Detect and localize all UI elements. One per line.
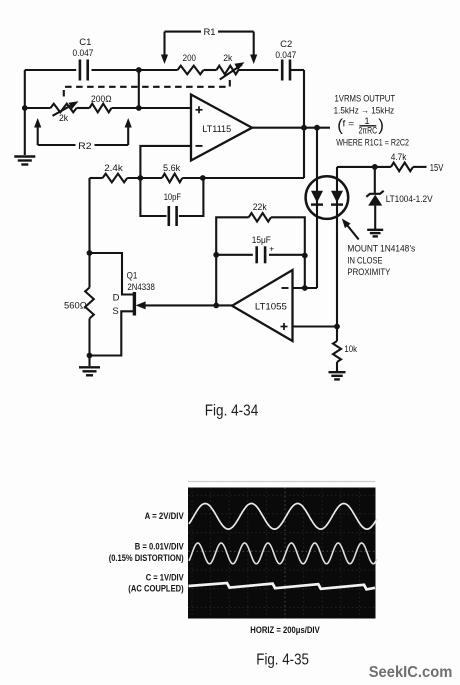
svg-text:(AC COUPLED): (AC COUPLED) <box>128 584 183 594</box>
svg-text:0.047: 0.047 <box>275 50 296 61</box>
svg-text:MOUNT 1N4148’s: MOUNT 1N4148’s <box>347 244 415 255</box>
svg-text:f =: f = <box>343 119 355 130</box>
svg-text:+: + <box>269 244 274 254</box>
svg-text:200: 200 <box>183 53 196 64</box>
svg-text:(0.15% DISTORTION): (0.15% DISTORTION) <box>109 553 184 563</box>
svg-text:): ) <box>378 115 384 134</box>
svg-text:S: S <box>112 306 118 317</box>
svg-text:200Ω: 200Ω <box>91 94 112 105</box>
svg-text:B = 0.01V/DIV: B = 0.01V/DIV <box>135 541 184 551</box>
svg-text:10pF: 10pF <box>164 192 182 203</box>
svg-text:C2: C2 <box>280 39 292 50</box>
svg-text:R1: R1 <box>203 27 215 38</box>
svg-text:0.047: 0.047 <box>73 48 94 59</box>
svg-text:R2: R2 <box>78 141 92 152</box>
svg-text:10k: 10k <box>344 344 357 355</box>
svg-text:IN CLOSE: IN CLOSE <box>347 255 382 266</box>
svg-text:A = 2V/DIV: A = 2V/DIV <box>145 511 184 521</box>
svg-text:LT1115: LT1115 <box>202 123 231 134</box>
svg-text:Fig. 4-34: Fig. 4-34 <box>205 403 259 420</box>
svg-text:4.7k: 4.7k <box>391 152 407 163</box>
svg-text:HORIZ = 200μs/DIV: HORIZ = 200μs/DIV <box>250 625 319 635</box>
svg-text:15V: 15V <box>430 163 444 174</box>
svg-text:2N4338: 2N4338 <box>127 282 154 293</box>
svg-text:Fig. 4-35: Fig. 4-35 <box>256 651 309 668</box>
svg-text:LT1055: LT1055 <box>255 300 287 311</box>
svg-text:WHERE R1C1 = R2C2: WHERE R1C1 = R2C2 <box>336 138 409 149</box>
svg-text:15μF: 15μF <box>252 235 271 246</box>
svg-text:5.6k: 5.6k <box>163 163 180 174</box>
svg-text:2k: 2k <box>59 113 68 124</box>
svg-text:Q1: Q1 <box>127 270 138 281</box>
svg-text:LT1004-1.2V: LT1004-1.2V <box>386 194 433 205</box>
svg-text:C1: C1 <box>79 37 91 48</box>
svg-text:D: D <box>113 292 120 303</box>
svg-text:2k: 2k <box>223 53 232 64</box>
svg-text:SeekIC.com: SeekIC.com <box>369 664 453 681</box>
svg-text:PROXIMITY: PROXIMITY <box>347 267 391 278</box>
svg-text:22k: 22k <box>253 202 267 213</box>
svg-text:2.4k: 2.4k <box>104 163 123 174</box>
svg-text:560Ω: 560Ω <box>64 301 87 312</box>
svg-text:C = 1V/DIV: C = 1V/DIV <box>146 572 184 582</box>
svg-text:1VRMS OUTPUT: 1VRMS OUTPUT <box>335 93 396 104</box>
svg-text:2πRC: 2πRC <box>358 125 377 135</box>
